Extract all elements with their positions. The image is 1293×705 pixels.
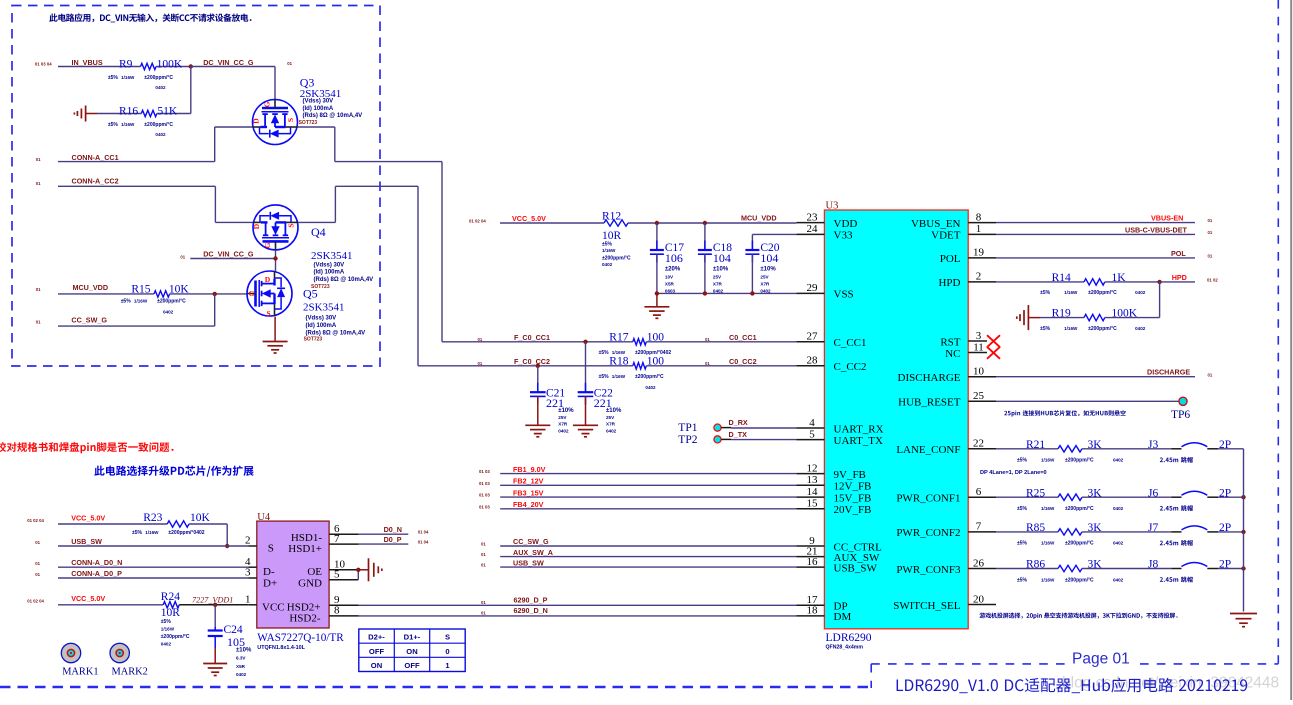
svg-text:±200ppm/°C: ±200ppm/°C — [635, 374, 664, 380]
svg-text:10K: 10K — [190, 512, 211, 524]
svg-text:CONN-A_CC1: CONN-A_CC1 — [72, 153, 119, 162]
svg-text:R21: R21 — [1026, 439, 1045, 451]
svg-text:0402: 0402 — [1113, 577, 1124, 582]
svg-text:VCC_5.0V: VCC_5.0V — [71, 513, 105, 522]
svg-text:(Rds) 8Ω @ 10mA,4V: (Rds) 8Ω @ 10mA,4V — [303, 113, 363, 119]
svg-text:13: 13 — [807, 474, 819, 486]
svg-text:1: 1 — [445, 661, 450, 670]
svg-text:10R: 10R — [602, 230, 622, 242]
svg-text:6290_D_P: 6290_D_P — [514, 596, 548, 605]
svg-text:D_RX: D_RX — [729, 418, 748, 427]
svg-text:VCC_5.0V: VCC_5.0V — [512, 214, 546, 223]
svg-text:0402: 0402 — [1113, 541, 1124, 546]
resistor R17 100 — [599, 332, 672, 356]
svg-text:±5%: ±5% — [1017, 541, 1028, 547]
svg-text:OFF: OFF — [404, 661, 420, 670]
svg-text:0402: 0402 — [1113, 506, 1124, 511]
svg-text:1/16W: 1/16W — [1041, 541, 1055, 546]
svg-text:0402: 0402 — [155, 85, 166, 90]
resistor R25 3K — [996, 487, 1171, 512]
svg-text:ON: ON — [406, 647, 417, 656]
svg-text:01: 01 — [35, 561, 40, 566]
svg-text:D2+-: D2+- — [368, 633, 385, 642]
svg-text:D1+-: D1+- — [404, 633, 421, 642]
svg-text:1/16W: 1/16W — [1041, 577, 1055, 582]
U4 pin 6 D0_N — [329, 523, 408, 535]
svg-text:UTQFN1.8x1.4-10L: UTQFN1.8x1.4-10L — [257, 645, 305, 651]
page border right dashed — [1277, 0, 1279, 664]
svg-text:R15: R15 — [131, 284, 150, 296]
svg-text:CONN-A_D0_N: CONN-A_D0_N — [71, 558, 122, 567]
wire USB-C-VBUS-DET — [996, 233, 1195, 235]
resistor R12 10R — [602, 211, 631, 268]
junction VCC at C18 — [703, 221, 707, 225]
svg-text:±20%: ±20% — [665, 266, 681, 272]
svg-text:DM: DM — [834, 611, 852, 623]
U3 pin 5 UART_TX — [796, 428, 883, 447]
svg-text:01 03: 01 03 — [479, 493, 490, 498]
svg-text:DC_VIN_CC_G: DC_VIN_CC_G — [203, 58, 254, 67]
svg-text:10V: 10V — [665, 274, 674, 279]
svg-text:24: 24 — [807, 223, 819, 235]
svg-text:1/16W: 1/16W — [1041, 506, 1055, 511]
svg-text:LANE_CONF: LANE_CONF — [896, 444, 960, 456]
wire FB4_20V — [500, 508, 796, 510]
svg-text:TP2: TP2 — [678, 434, 697, 446]
svg-text:F_C0_CC2: F_C0_CC2 — [514, 357, 550, 366]
U3 pin 10 DISCHARGE — [898, 366, 996, 385]
svg-text:C0_CC1: C0_CC1 — [729, 333, 757, 342]
wire VCC_5.0V rail — [500, 222, 796, 224]
resistor R19 100K — [1040, 282, 1160, 332]
no-connect X at pin 11 NC — [987, 347, 1000, 359]
svg-text:104: 104 — [760, 251, 778, 265]
svg-text:VSS: VSS — [834, 289, 854, 301]
svg-text:0402: 0402 — [155, 132, 166, 137]
junction DC_VIN_CC_G gate node — [273, 256, 277, 260]
svg-text:±200ppm/°C: ±200ppm/°C — [161, 634, 190, 640]
U4 pin names — [262, 532, 322, 625]
U4 pin 10 OE — [329, 559, 358, 571]
U3 pin 19 POL — [940, 247, 996, 266]
wire IN_VBUS — [58, 66, 191, 68]
ground at Q5 — [263, 341, 288, 343]
svg-text:01: 01 — [481, 552, 486, 557]
svg-text:10: 10 — [973, 366, 985, 378]
svg-text:23: 23 — [807, 211, 819, 223]
jumper J3 2P — [1148, 439, 1231, 463]
svg-text:±5%: ±5% — [602, 242, 613, 248]
svg-text:±5%: ±5% — [1017, 458, 1028, 464]
resistor R14 1K — [996, 272, 1160, 296]
junction MCU_VDD / CC_SW_G tap — [213, 292, 217, 296]
svg-text:15V_FB: 15V_FB — [834, 492, 872, 504]
svg-text:V33: V33 — [834, 230, 853, 242]
capacitor C18 104 — [698, 223, 732, 293]
ground at U4 OE — [358, 558, 382, 581]
U3 pin 12 9V_FB — [796, 462, 866, 481]
svg-text:(Vdss) 30V: (Vdss) 30V — [314, 262, 345, 268]
svg-text:D_TX: D_TX — [729, 430, 748, 439]
IC U4 body — [257, 512, 329, 628]
svg-text:0402: 0402 — [645, 385, 656, 390]
svg-text:G: G — [263, 242, 272, 248]
svg-text:(Id) 100mA: (Id) 100mA — [306, 323, 337, 329]
svg-text:01: 01 — [36, 320, 41, 325]
svg-text:±200ppm/°C: ±200ppm/°C — [1065, 577, 1094, 583]
U3 pin 23 VDD — [796, 211, 857, 230]
svg-text:G: G — [263, 101, 272, 107]
jumper J6 2P — [1148, 487, 1231, 511]
svg-text:F_C0_CC1: F_C0_CC1 — [514, 333, 550, 342]
svg-text:0: 0 — [445, 647, 449, 656]
svg-text:51K: 51K — [157, 105, 178, 117]
U3 pin 25 HUB_RESET — [898, 390, 996, 409]
svg-text:Q5: Q5 — [303, 286, 318, 300]
svg-text:27: 27 — [807, 331, 819, 343]
U3 pin 21 AUX_SW — [796, 545, 880, 564]
svg-text:01: 01 — [35, 540, 40, 545]
svg-text:0402: 0402 — [760, 288, 771, 293]
junction VSS C18 — [703, 291, 707, 295]
svg-text:104: 104 — [713, 251, 731, 265]
resistor R24 10R — [58, 591, 248, 646]
svg-text:01: 01 — [36, 157, 41, 162]
svg-text:8: 8 — [976, 211, 982, 223]
U3 pin 1 VDET — [931, 223, 996, 242]
svg-text:(Id) 100mA: (Id) 100mA — [314, 270, 345, 276]
junction VSS C17 — [655, 291, 659, 295]
svg-text:J7: J7 — [1148, 522, 1158, 534]
svg-text:01 03: 01 03 — [479, 481, 490, 486]
svg-text:POL: POL — [1171, 249, 1186, 258]
ground at C24 — [203, 663, 227, 665]
U3 pin 29 VSS — [796, 282, 853, 301]
transistor Q3 2SK3541 — [252, 75, 363, 144]
svg-text:±5%: ±5% — [1017, 506, 1028, 512]
svg-text:19: 19 — [973, 247, 985, 259]
svg-text:3: 3 — [245, 567, 251, 579]
svg-text:4: 4 — [809, 417, 815, 429]
test point TP2 — [678, 434, 721, 446]
wire AUX_SW_A — [500, 556, 796, 558]
svg-text:0402: 0402 — [161, 642, 172, 647]
svg-text:1/16W: 1/16W — [161, 627, 175, 632]
junction VSS C20 — [750, 291, 754, 295]
svg-text:G: G — [249, 289, 255, 298]
svg-text:HPD: HPD — [938, 277, 960, 289]
wire 6290_D_N — [359, 615, 797, 617]
U3 pin 20 SWITCH_SEL — [893, 593, 996, 612]
svg-text:0402: 0402 — [713, 288, 724, 293]
junction C24 tap — [213, 603, 217, 607]
svg-text:6: 6 — [976, 486, 982, 498]
wire pull-down bus — [1243, 449, 1245, 612]
svg-text:(Id) 100mA: (Id) 100mA — [303, 106, 334, 112]
svg-text:01: 01 — [481, 610, 486, 615]
svg-text:±200ppm/°C: ±200ppm/°C — [144, 75, 173, 81]
svg-text:Q4: Q4 — [311, 225, 326, 239]
svg-text:100K: 100K — [1112, 308, 1138, 320]
svg-text:HSD2-: HSD2- — [289, 613, 321, 625]
svg-text:100K: 100K — [157, 58, 183, 70]
svg-text:±10%: ±10% — [713, 266, 729, 272]
U3 pin 9 CC_CTRL — [796, 535, 882, 554]
wire F_C0_CC1 — [442, 341, 796, 343]
svg-text:FB3_15V: FB3_15V — [513, 488, 544, 497]
svg-text:15: 15 — [807, 498, 819, 510]
svg-text:1: 1 — [976, 223, 982, 235]
svg-text:7: 7 — [976, 521, 982, 533]
svg-text:S: S — [445, 633, 450, 642]
svg-text:1K: 1K — [1112, 272, 1127, 284]
svg-text:25V: 25V — [760, 274, 769, 279]
U4 pin 4 — [245, 556, 257, 568]
U3 pin 4 UART_RX — [796, 417, 883, 436]
svg-text:14: 14 — [807, 486, 819, 498]
wire CC_SW_G — [500, 545, 796, 547]
svg-text:USB_SW: USB_SW — [71, 537, 102, 546]
resistor R21 3K — [996, 439, 1171, 464]
svg-text:1: 1 — [245, 593, 251, 605]
svg-text:CC_SW_G: CC_SW_G — [71, 316, 107, 325]
svg-text:U3: U3 — [826, 201, 839, 212]
svg-text:(Rds) 8Ω @ 10mA,4V: (Rds) 8Ω @ 10mA,4V — [314, 277, 374, 283]
svg-text:R25: R25 — [1026, 487, 1045, 499]
U4 pin 1 — [245, 593, 257, 605]
svg-text:USB-C-VBUS-DET: USB-C-VBUS-DET — [1125, 225, 1188, 234]
svg-text:D+: D+ — [263, 577, 277, 589]
U3 pin 16 USB_SW — [796, 556, 877, 575]
svg-text:USB_SW: USB_SW — [513, 558, 544, 567]
wire POL — [996, 257, 1195, 259]
capacitor C20 104 on V33 — [745, 234, 796, 293]
junction on IN_VBUS at R16 tap — [189, 64, 193, 68]
svg-text:D0_N: D0_N — [384, 525, 402, 534]
svg-text:VDET: VDET — [931, 230, 961, 242]
svg-text:10R: 10R — [161, 607, 181, 619]
junction VCC at C17 — [655, 221, 659, 225]
wire VSS to ground — [656, 293, 658, 306]
svg-text:S: S — [266, 309, 270, 318]
svg-text:22: 22 — [973, 438, 984, 450]
svg-text:100: 100 — [647, 356, 665, 368]
wire CONN-A_CC2 to Q4 drain — [58, 186, 253, 222]
svg-text:01 02: 01 02 — [1207, 278, 1218, 283]
svg-text:S: S — [286, 118, 295, 122]
svg-text:01 04: 01 04 — [418, 529, 429, 534]
wire CONN-A_D0_N — [58, 566, 248, 568]
svg-text:D0_P: D0_P — [384, 535, 402, 544]
resistor R9 100K — [108, 58, 183, 90]
svg-text:J6: J6 — [1148, 487, 1158, 499]
svg-text:DP 4Lane=1, DP 2Lane=0: DP 4Lane=1, DP 2Lane=0 — [980, 470, 1047, 476]
fiducial MARK2 — [110, 643, 148, 677]
note switch_sel game console (Chinese) — [979, 613, 1177, 619]
title LDR6290_V1.0 DC adapter Hub circuit — [897, 678, 1248, 694]
svg-text:R86: R86 — [1026, 559, 1045, 571]
wire Q5 source to ground — [274, 317, 276, 342]
wire CONN-A_CC1 to Q3 drain — [58, 127, 253, 162]
junction USB_SW R23 — [225, 544, 229, 548]
svg-text:R16: R16 — [119, 105, 138, 117]
svg-text:01: 01 — [481, 563, 486, 568]
svg-text:±5%: ±5% — [161, 619, 172, 625]
svg-text:C0_CC2: C0_CC2 — [729, 357, 757, 366]
svg-text:RST: RST — [940, 336, 960, 348]
no-connect X at pin 3 RST — [987, 335, 1000, 347]
svg-text:PWR_CONF1: PWR_CONF1 — [896, 493, 960, 505]
svg-text:TP1: TP1 — [678, 422, 697, 434]
page border bottom-left dashed — [0, 686, 871, 688]
svg-text:R23: R23 — [143, 512, 162, 524]
svg-text:01 02 04: 01 02 04 — [27, 518, 44, 523]
svg-text:1/16W: 1/16W — [1041, 458, 1055, 463]
svg-text:FB4_20V: FB4_20V — [513, 500, 544, 509]
svg-text:1/16W: 1/16W — [145, 530, 159, 535]
svg-text:3K: 3K — [1088, 522, 1103, 534]
note 25pin HUB reset (Chinese) — [1004, 410, 1125, 416]
U4 pin 8 HSD2- — [329, 605, 359, 617]
svg-text:HSD1+: HSD1+ — [288, 543, 322, 555]
junction F_C0_CC1 at C22 — [583, 340, 587, 344]
wire USB_SW u4 — [58, 545, 248, 547]
svg-text:5: 5 — [334, 568, 340, 580]
svg-text:R18: R18 — [609, 356, 628, 368]
svg-text:UART_RX: UART_RX — [834, 423, 884, 435]
junction F_C0_CC2 at C21 — [536, 364, 540, 368]
svg-text:01: 01 — [36, 181, 41, 186]
junction HPD node — [1157, 280, 1161, 284]
junction pull bus J8 — [1241, 566, 1245, 570]
resistor R15 10K — [58, 284, 247, 315]
svg-text:GND: GND — [298, 577, 322, 589]
svg-text:±10%: ±10% — [558, 408, 574, 414]
svg-text:(Vdss) 30V: (Vdss) 30V — [303, 99, 334, 105]
U4 part name WAS7227Q-10/TR — [257, 632, 344, 651]
page border step dashed — [870, 664, 872, 688]
svg-text:NC: NC — [945, 348, 960, 360]
svg-text:R12: R12 — [602, 211, 621, 223]
svg-text:01 03: 01 03 — [479, 504, 490, 509]
svg-text:MCU_VDD: MCU_VDD — [741, 214, 777, 223]
svg-text:CC_SW_G: CC_SW_G — [513, 537, 549, 546]
capacitor C24 105 — [208, 605, 252, 677]
svg-text:100: 100 — [647, 332, 665, 344]
svg-text:1/16W: 1/16W — [612, 374, 626, 379]
svg-text:X7R: X7R — [558, 422, 568, 427]
wire D_RX — [721, 427, 796, 429]
wire FB3_15V — [500, 496, 796, 498]
svg-text:25: 25 — [973, 390, 985, 402]
svg-text:VBUS-EN: VBUS-EN — [1151, 214, 1183, 223]
svg-text:HUB_RESET: HUB_RESET — [898, 397, 961, 409]
wire D_TX — [721, 438, 796, 440]
svg-text:X7R: X7R — [713, 281, 723, 286]
svg-text:SOT723: SOT723 — [304, 337, 323, 343]
junction pull bus J6 — [1241, 495, 1245, 499]
ground at R19 — [1017, 305, 1040, 330]
svg-text:OE: OE — [307, 566, 322, 578]
svg-text:01: 01 — [481, 542, 486, 547]
svg-text:01: 01 — [1208, 218, 1213, 223]
U3 pin 6 PWR_CONF1 — [896, 486, 996, 505]
wire J3 to pull bus — [1218, 448, 1244, 450]
svg-text:1/16W: 1/16W — [612, 350, 626, 355]
note PD chip upgrade (Chinese, blue) — [94, 466, 253, 477]
U3 pin 15 20V_FB — [796, 498, 871, 516]
svg-text:01: 01 — [705, 337, 710, 342]
svg-text:3K: 3K — [1088, 487, 1103, 499]
wire J6 to pull bus — [1218, 496, 1244, 498]
svg-text:±200ppm/°C: ±200ppm/°C — [1065, 458, 1094, 464]
svg-text:±200ppm/°0402: ±200ppm/°0402 — [168, 530, 204, 536]
ground at C21 — [525, 424, 550, 426]
svg-text:S: S — [287, 223, 296, 227]
svg-text:6290_D_N: 6290_D_N — [514, 606, 548, 615]
svg-text:01: 01 — [1208, 254, 1213, 259]
svg-text:29: 29 — [807, 282, 819, 294]
svg-text:(Rds) 8Ω @ 10mA,4V: (Rds) 8Ω @ 10mA,4V — [306, 330, 366, 336]
svg-text:01: 01 — [481, 600, 486, 605]
svg-text:D: D — [252, 223, 261, 229]
svg-text:2SK3541: 2SK3541 — [303, 301, 345, 313]
dashed section box top-left — [12, 6, 380, 367]
wire FB2_12V — [500, 484, 796, 486]
svg-text:20V_FB: 20V_FB — [834, 504, 872, 516]
svg-text:CONN-A_CC2: CONN-A_CC2 — [72, 177, 119, 186]
svg-text:±200ppm/°C: ±200ppm/°C — [1065, 506, 1094, 512]
wire VBUS-EN — [996, 222, 1195, 224]
ground at C22 — [573, 424, 598, 426]
ground at R16 — [74, 106, 97, 122]
svg-text:±5%: ±5% — [121, 298, 132, 304]
page border bottom-right dashed — [871, 663, 1278, 665]
svg-text:MARK2: MARK2 — [112, 667, 148, 678]
screen right edge — [1290, 0, 1292, 700]
svg-text:01 02 04: 01 02 04 — [469, 218, 486, 223]
svg-text:1/16W: 1/16W — [121, 122, 135, 127]
svg-text:QFN28_4x4mm: QFN28_4x4mm — [826, 645, 864, 651]
svg-text:1/16W: 1/16W — [134, 298, 148, 303]
svg-text:0603: 0603 — [665, 288, 676, 293]
transistor Q4 2SK3541 — [252, 205, 373, 290]
svg-text:R85: R85 — [1026, 522, 1045, 534]
U3 pin 26 PWR_CONF3 — [896, 557, 996, 576]
svg-text:01 02 04: 01 02 04 — [27, 599, 44, 604]
wire HPD — [1160, 281, 1195, 283]
svg-text:10K: 10K — [169, 284, 190, 296]
svg-text:0402: 0402 — [558, 428, 569, 433]
U3 pin 17 DP — [796, 594, 847, 613]
U3 pin 14 15V_FB — [796, 486, 871, 505]
svg-text:26: 26 — [973, 557, 985, 569]
svg-text:X7R: X7R — [606, 422, 616, 427]
resistor R23 10K — [58, 512, 227, 546]
wire DISCHARGE — [996, 376, 1195, 378]
svg-text:1/16W: 1/16W — [1064, 326, 1078, 331]
svg-text:POL: POL — [940, 253, 961, 265]
svg-text:±5%: ±5% — [108, 122, 119, 128]
svg-text:J8: J8 — [1148, 559, 1158, 571]
svg-text:25V: 25V — [606, 415, 615, 420]
svg-text:28: 28 — [807, 355, 819, 367]
svg-text:7: 7 — [334, 533, 340, 545]
U3 pin 2 HPD — [938, 271, 996, 290]
svg-text:X5R: X5R — [236, 664, 246, 669]
svg-text:D: D — [252, 118, 261, 124]
svg-text:6.3V: 6.3V — [236, 656, 246, 661]
